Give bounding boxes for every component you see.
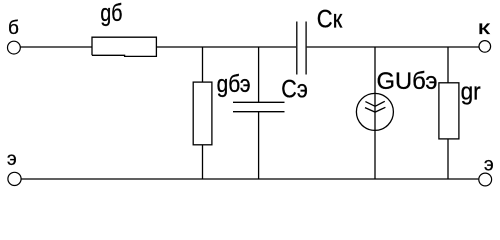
svg-text:б: б [8, 18, 19, 39]
svg-text:gr: gr [461, 79, 481, 106]
svg-text:Ск: Ск [317, 6, 343, 34]
svg-text:GUбэ: GUбэ [377, 68, 438, 95]
svg-text:э: э [484, 155, 494, 176]
svg-text:к: к [478, 18, 491, 39]
svg-text:э: э [7, 149, 17, 170]
svg-text:gб: gб [100, 0, 122, 27]
svg-text:Сэ: Сэ [281, 76, 308, 104]
svg-text:gбэ: gбэ [217, 71, 251, 98]
